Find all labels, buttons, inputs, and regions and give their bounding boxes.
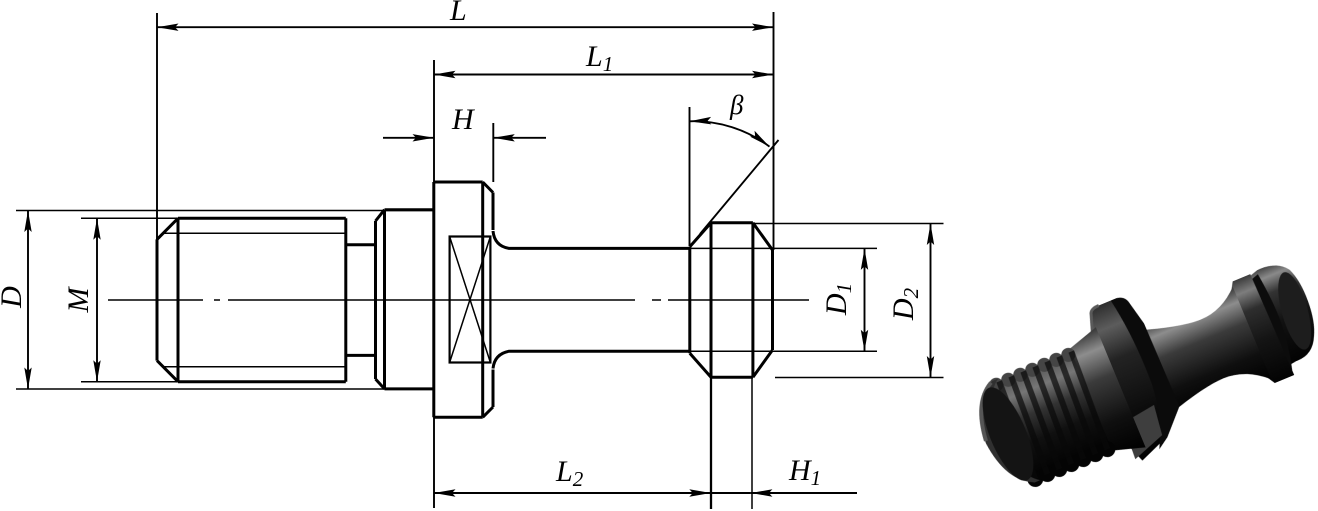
- thread teeth top: [987, 346, 1077, 394]
- flange chamfer base: [481, 182, 484, 417]
- ring chamfers: [376, 210, 385, 221]
- thread cylinder: [988, 352, 1110, 481]
- neck: [346, 243, 376, 246]
- dimension H (arrows outside): [383, 137, 434, 139]
- svg-text:β: β: [729, 90, 744, 120]
- shaft taper + flare: [1137, 287, 1271, 419]
- extension lines below head for H1: [710, 377, 712, 509]
- dimension D1 ext lines (thin through head): [690, 247, 877, 249]
- beta: arc with arrows: [690, 121, 770, 146]
- flange facet (wrench flat): [1119, 405, 1171, 459]
- dimension D2 ext lines: [753, 223, 944, 225]
- ring chamfer base: [383, 210, 386, 389]
- thread chamfers: [157, 218, 178, 239]
- ring left face: [374, 221, 377, 379]
- thread right shoulder: [344, 218, 347, 381]
- thread end face: [156, 239, 159, 360]
- dimension L1: [434, 74, 774, 76]
- dimension H1: [711, 492, 751, 494]
- centerline: [108, 299, 809, 301]
- svg-text:L2: L2: [555, 455, 584, 491]
- dimension L2: [434, 492, 711, 494]
- beta: vertical ref line: [689, 107, 691, 246]
- svg-text:D1: D1: [820, 283, 856, 316]
- svg-text:L: L: [449, 0, 467, 27]
- thread end chamfer ring: [965, 379, 1040, 494]
- flange chamfers: [483, 182, 493, 193]
- shoulder cone between thread and flange: [1063, 327, 1146, 461]
- svg-text:L1: L1: [585, 40, 613, 76]
- beta: chamfer extension slant line: [700, 140, 779, 234]
- extension line x434 (L1/H/L2/flange-left): [433, 60, 435, 508]
- cap (with rounded rim): [1245, 257, 1318, 369]
- thread teeth bottom: [1025, 439, 1118, 490]
- ring OD: [385, 208, 434, 211]
- flange right edge: [492, 193, 495, 231]
- thread chamfer base: [177, 218, 180, 381]
- dimension L: [157, 26, 774, 28]
- svg-text:H1: H1: [788, 454, 821, 490]
- 3D pull stud photo: [954, 230, 1318, 511]
- extension line left (L): [156, 13, 158, 240]
- shaft with fillets: [493, 231, 690, 248]
- thread ridges: [993, 350, 1114, 480]
- extension line right x773.5 (L/L1): [773, 12, 775, 250]
- svg-text:D2: D2: [887, 287, 923, 321]
- thread end face: [972, 381, 1044, 487]
- X-box: [450, 237, 491, 363]
- head outline: [688, 247, 691, 354]
- cap face: [1272, 269, 1318, 353]
- collar: [1227, 273, 1294, 385]
- svg-text:H: H: [451, 103, 476, 136]
- flange top/bottom: [434, 181, 483, 184]
- extension line H right x493.3: [492, 123, 494, 182]
- thread OD: [178, 217, 346, 220]
- flange dark right face: [1100, 292, 1192, 450]
- flange left face: [432, 182, 435, 417]
- svg-text:M: M: [62, 286, 95, 314]
- dimension M: [81, 217, 178, 219]
- groove: [1242, 273, 1300, 375]
- svg-text:D: D: [0, 286, 28, 309]
- thread minor diameter thin lines: [163, 232, 346, 234]
- dimension D: [16, 210, 433, 212]
- flange: [1076, 292, 1193, 463]
